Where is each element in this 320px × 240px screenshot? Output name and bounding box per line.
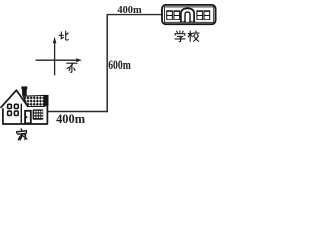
label: 北 (north) hand-drawn glyph (59, 31, 68, 40)
school arched door (180, 8, 195, 21)
house front wall (3, 106, 48, 124)
school building icon (162, 5, 216, 24)
gable window pane 1 (8, 104, 12, 108)
label: 校 (school char 2) hand-drawn glyph (188, 31, 199, 42)
gable window pane 2 (14, 104, 18, 108)
house (home) icon (1, 86, 49, 124)
school outer rounded wall (162, 5, 216, 24)
house checkered extension roof (23, 95, 44, 106)
house chimney (22, 89, 27, 96)
extension door (25, 111, 31, 124)
house extension roof right end cap (44, 95, 49, 106)
school window 4 (204, 10, 211, 20)
wire: bottom horizontal path segment (home road) (48, 111, 108, 113)
svg-text:600m: 600m (108, 58, 131, 72)
svg-text:400m: 400m (56, 111, 85, 126)
school window 1 (166, 10, 173, 20)
compass north arrow (53, 37, 57, 76)
house gable roof (1, 90, 28, 108)
compass east arrow (36, 58, 82, 62)
wire: vertical path segment (106, 14, 108, 112)
school window 3 (196, 10, 203, 20)
school inner wall line (165, 7, 214, 22)
gable right corner edge (20, 104, 22, 123)
extension grid window (33, 109, 44, 119)
label: 学 (school char 1) hand-drawn glyph (175, 31, 185, 42)
label: 家 (home) hand-drawn glyph (16, 128, 27, 140)
gable window pane 4 (14, 111, 18, 115)
svg-text:400m: 400m (117, 4, 141, 16)
school window 2 (173, 10, 180, 20)
gable window pane 3 (8, 111, 12, 115)
wire: top horizontal path segment (school road) (107, 14, 162, 16)
label: 东 (east) hand-drawn glyph (67, 63, 77, 72)
